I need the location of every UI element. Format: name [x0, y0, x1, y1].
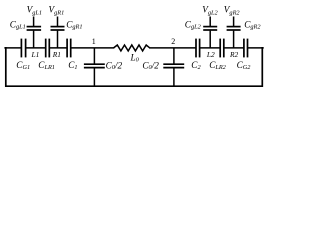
- capacitor C_G1 plates: [20, 39, 22, 58]
- capacitor C_0/2 right (stub, plates, stub to ground): [163, 48, 184, 86]
- svg-text:C0/2: C0/2: [106, 60, 123, 71]
- gate capacitor C_gR2 (stub, plates, stub): [227, 17, 241, 48]
- svg-text:CLR2: CLR2: [209, 60, 226, 71]
- wire: left rail to C_G1: [5, 47, 21, 49]
- svg-text:C0/2: C0/2: [142, 60, 159, 71]
- capacitor C_LR1 plates: [45, 39, 47, 58]
- capacitor C_LR2 plates: [219, 39, 221, 58]
- svg-text:2: 2: [171, 37, 175, 46]
- capacitor C_0/2 left (stub, plates, stub to ground): [84, 48, 105, 86]
- capacitor C_2 plates: [195, 39, 197, 58]
- svg-text:VgL1: VgL1: [27, 5, 42, 17]
- inductor L0 zigzag: [114, 45, 150, 51]
- svg-text:VgR2: VgR2: [224, 5, 241, 17]
- wire: C_G2 to right rail: [248, 47, 263, 49]
- wire: island L1: [26, 47, 45, 49]
- svg-text:VgR1: VgR1: [49, 5, 65, 17]
- svg-text:CgL2: CgL2: [185, 19, 202, 30]
- wire: C_1 to inductor L0 (through node 1): [71, 47, 113, 49]
- wire: inductor L0 to C_2 (through node 2): [150, 47, 196, 49]
- svg-text:L0: L0: [130, 53, 140, 64]
- wire: island L2: [200, 47, 219, 49]
- svg-text:CG1: CG1: [16, 60, 30, 71]
- svg-text:CgL1: CgL1: [10, 19, 26, 30]
- wire: island R1: [50, 47, 67, 49]
- svg-text:CLR1: CLR1: [38, 60, 55, 71]
- svg-text:C2: C2: [191, 60, 201, 71]
- capacitor C_1 plates: [66, 39, 68, 58]
- svg-text:CgR2: CgR2: [244, 19, 261, 30]
- svg-text:R2: R2: [229, 50, 239, 59]
- gate capacitor C_gL2 (stub, plates, stub): [203, 17, 217, 48]
- svg-text:L1: L1: [31, 50, 40, 59]
- capacitor C_G2 plates: [243, 39, 245, 58]
- svg-text:VgL2: VgL2: [202, 5, 218, 17]
- svg-text:1: 1: [92, 37, 96, 46]
- wire: island R2: [224, 47, 243, 49]
- svg-text:CgR1: CgR1: [66, 19, 82, 30]
- svg-text:C1: C1: [68, 60, 77, 71]
- ground loop wire (left rail, bottom rail, right rail): [6, 48, 263, 86]
- svg-text:CG2: CG2: [237, 60, 252, 71]
- gate capacitor C_gL1 (stub, plates, stub): [27, 17, 41, 48]
- gate capacitor C_gR1 (stub, plates, stub): [51, 17, 65, 48]
- svg-text:R1: R1: [52, 50, 61, 59]
- svg-text:L2: L2: [206, 50, 215, 59]
